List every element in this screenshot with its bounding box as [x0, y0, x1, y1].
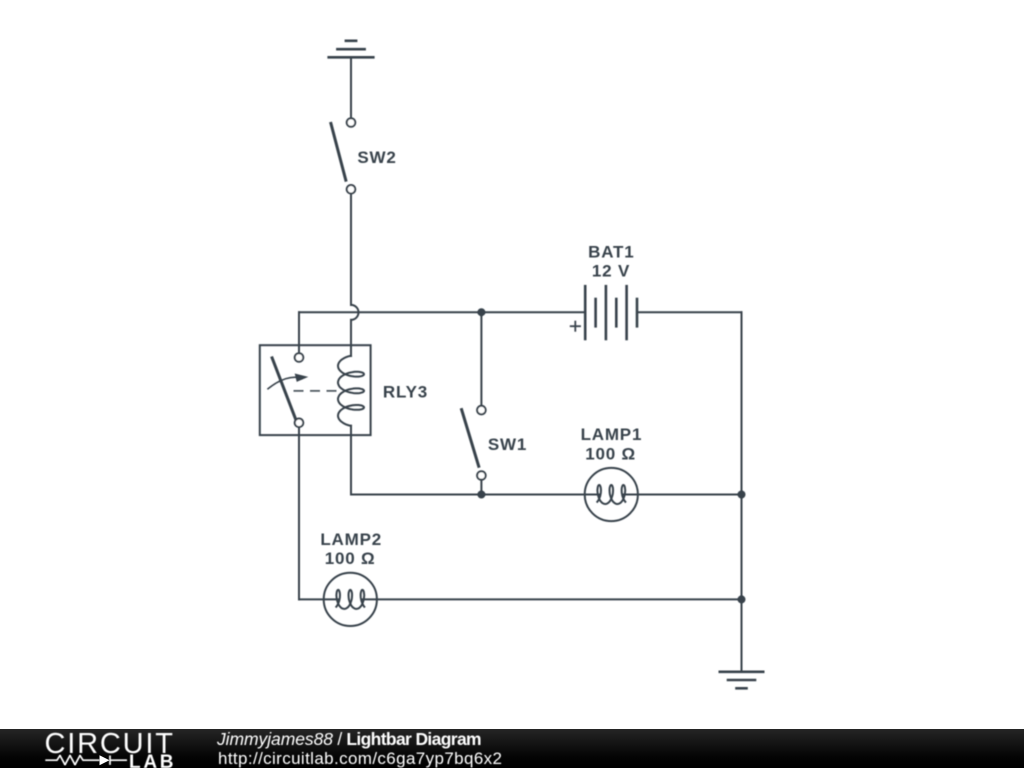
svg-text:LAB: LAB: [129, 752, 174, 768]
svg-text:100 Ω: 100 Ω: [585, 445, 636, 464]
svg-text:Jimmyjames88 / Lightbar Diagra: Jimmyjames88 / Lightbar Diagram: [216, 729, 482, 749]
svg-text:LAMP1: LAMP1: [581, 425, 643, 444]
svg-text:BAT1: BAT1: [588, 242, 634, 261]
svg-text:LAMP2: LAMP2: [320, 530, 382, 549]
svg-text:12 V: 12 V: [592, 262, 630, 281]
svg-text:RLY3: RLY3: [383, 382, 428, 401]
svg-text:http://circuitlab.com/c6ga7yp7: http://circuitlab.com/c6ga7yp7bq6x2: [218, 749, 502, 768]
svg-text:SW2: SW2: [357, 148, 396, 167]
svg-text:SW1: SW1: [488, 435, 527, 454]
svg-text:100 Ω: 100 Ω: [325, 549, 376, 568]
